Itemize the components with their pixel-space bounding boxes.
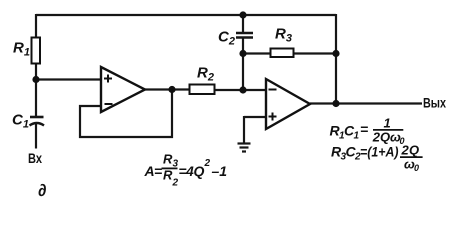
svg-text:1: 1: [384, 116, 391, 131]
svg-text:Вх: Вх: [28, 150, 42, 166]
svg-text:=: =: [154, 163, 162, 179]
svg-text:∂: ∂: [38, 181, 47, 200]
svg-text:Вых: Вых: [423, 95, 446, 111]
svg-text:1: 1: [354, 131, 360, 142]
svg-text:Q: Q: [409, 143, 419, 158]
svg-text:R: R: [163, 152, 173, 167]
svg-text:Q: Q: [380, 130, 390, 145]
svg-text:A: A: [144, 163, 155, 179]
svg-text:2: 2: [172, 178, 179, 189]
svg-text:Q: Q: [194, 163, 205, 179]
svg-text:1: 1: [219, 163, 227, 179]
svg-text:=: =: [360, 121, 368, 137]
svg-text:–: –: [212, 163, 220, 179]
svg-text:R: R: [163, 168, 173, 183]
svg-text:=(1+A): =(1+A): [360, 144, 399, 160]
svg-text:0: 0: [414, 163, 419, 173]
svg-text:2: 2: [204, 158, 211, 169]
